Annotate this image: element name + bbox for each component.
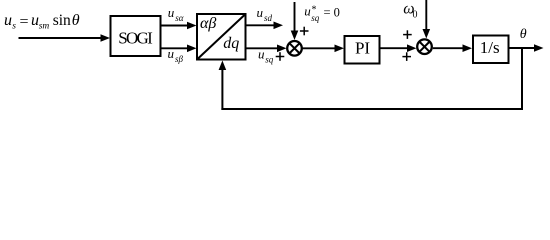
svg-text:sq: sq (265, 55, 274, 65)
block PI (345, 36, 380, 64)
label u_salpha (168, 5, 184, 23)
block alphabeta to dq transform (197, 14, 246, 60)
svg-text:u: u (258, 46, 265, 61)
block SOGI (111, 16, 161, 56)
svg-text:= 0: = 0 (324, 6, 340, 20)
svg-text:s: s (12, 22, 16, 32)
svg-text:0: 0 (413, 10, 418, 21)
wire output theta arrow (509, 44, 544, 52)
label u*_sq = 0 (304, 4, 340, 23)
summing junction 1 (287, 41, 302, 56)
wire reference u*_sq arrow down into summing junction 1 (291, 2, 299, 40)
wire input arrow into SOGI (19, 34, 111, 42)
label omega_0 (403, 1, 417, 21)
input signal label u_s = u_sm sin theta (4, 12, 80, 32)
block integrator 1/s (473, 36, 509, 64)
plus sign for u_sq input (276, 52, 285, 61)
svg-text:sin: sin (53, 12, 71, 29)
wire summing junction 2 to integrator (433, 44, 472, 52)
label u_sbeta (168, 46, 184, 64)
svg-text:sβ: sβ (175, 54, 184, 64)
wire u_salpha from SOGI to alphabeta/dq (161, 22, 197, 30)
svg-text:PI: PI (355, 39, 370, 58)
wire feedback bottom run (221, 108, 523, 110)
svg-text:sq: sq (311, 13, 320, 23)
plus sign for u*_sq input (300, 27, 309, 36)
plus sign for PI input (402, 52, 411, 61)
wire u_sq from dq block to summing junction (246, 45, 287, 53)
svg-text:αβ: αβ (200, 15, 216, 32)
wire feedback up into dq block with arrow (219, 61, 227, 111)
svg-text:sα: sα (175, 13, 184, 23)
wire u_sbeta from SOGI to alphabeta/dq (161, 45, 197, 53)
svg-text:1/s: 1/s (480, 38, 500, 57)
wire feedback from output down (521, 48, 523, 110)
svg-text:u: u (168, 46, 175, 61)
summing junction 2 (417, 39, 432, 54)
label u_sd (257, 5, 273, 23)
plus sign for omega_0 input (403, 30, 412, 39)
svg-text:u: u (304, 4, 311, 19)
svg-text:sd: sd (264, 13, 273, 23)
svg-text:θ: θ (520, 27, 527, 42)
wire omega_0 arrow down into summing junction 2 (423, 0, 431, 39)
svg-text:u: u (168, 5, 175, 20)
svg-text:u: u (4, 12, 12, 29)
svg-text:=: = (20, 14, 29, 31)
svg-text:SOGI: SOGI (118, 28, 153, 47)
svg-text:dq: dq (223, 35, 239, 52)
wire summing junction 1 to PI (303, 45, 345, 53)
label u_sq (258, 46, 274, 64)
wire u_sd output arrow (246, 22, 284, 30)
svg-text:u: u (257, 5, 264, 20)
svg-text:sm: sm (39, 22, 50, 32)
wire PI to summing junction 2 (380, 44, 417, 52)
svg-text:θ: θ (72, 12, 80, 29)
